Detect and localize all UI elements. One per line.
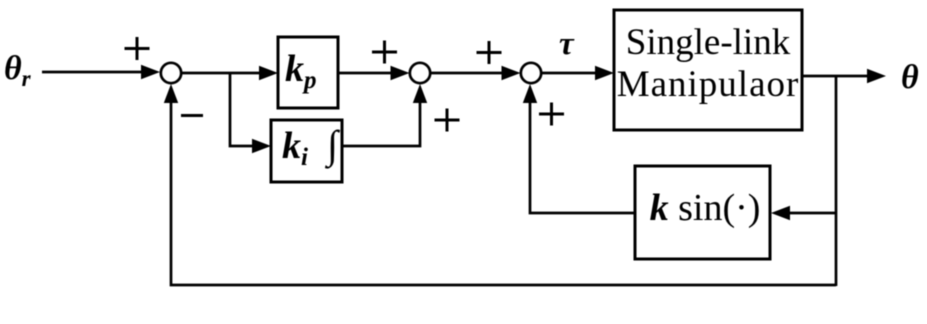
summing junction 2 [410, 63, 430, 83]
wire: branch down to ki block [230, 73, 258, 146]
arrowhead: into summing junction 3 from k sin [523, 84, 537, 103]
wire: summing junction 2 to summing junction 3 [430, 72, 507, 75]
wire: manipulator output to theta [802, 75, 872, 78]
svg-text:Manipulaor: Manipulaor [617, 64, 800, 105]
wire: feedback tap vertical [835, 76, 838, 286]
arrowhead: into summing junction 2 from kp [391, 66, 410, 80]
arrowhead: into summing junction 1 [141, 65, 160, 79]
svg-text:τ: τ [559, 26, 575, 62]
svg-text:k sin(·): k sin(·) [650, 187, 761, 229]
svg-text:θ: θ [901, 59, 919, 96]
arrowhead: into summing junction 3 [502, 66, 521, 80]
arrowhead: into kp block [259, 66, 278, 80]
svg-text:θr: θr [4, 50, 32, 91]
wire: k sin output up into summing junction 3 [530, 99, 635, 213]
plus sign below summing junction 2 [435, 109, 460, 132]
plus sign before summing junction 3 [477, 41, 502, 64]
arrowhead: into ki block [252, 139, 271, 153]
kp block [278, 37, 338, 108]
wire: ki output up into summing junction 2 [342, 99, 420, 146]
wire: summing junction 1 to kp block [181, 72, 264, 75]
summing junction 1 [161, 63, 181, 83]
wire: input theta_r to summing junction 1 [42, 71, 144, 74]
manipulator block U1 [614, 10, 802, 130]
arrowhead: into summing junction 1 from feedback [164, 84, 178, 103]
wire: outer feedback bottom to summing junction 1 [171, 99, 836, 285]
arrowhead: into k sin block [771, 206, 790, 220]
wire: kp output to summing junction 2 [338, 72, 396, 75]
wire: summing junction 3 to manipulator block [541, 72, 600, 75]
arrowhead: into summing junction 2 from ki [413, 84, 427, 103]
svg-text:Single-link: Single-link [626, 22, 791, 63]
plus sign at input junction [125, 37, 150, 60]
plus sign before summing junction 2 [372, 41, 397, 64]
ki block [271, 120, 342, 182]
arrowhead: into manipulator block [595, 66, 614, 80]
summing junction 3 [521, 63, 541, 83]
minus sign at feedback junction [181, 114, 203, 117]
arrowhead: output theta [867, 69, 886, 83]
k sin block [635, 166, 770, 259]
wire: feedback into k sin block [785, 212, 836, 215]
plus sign below summing junction 3 [539, 103, 564, 126]
